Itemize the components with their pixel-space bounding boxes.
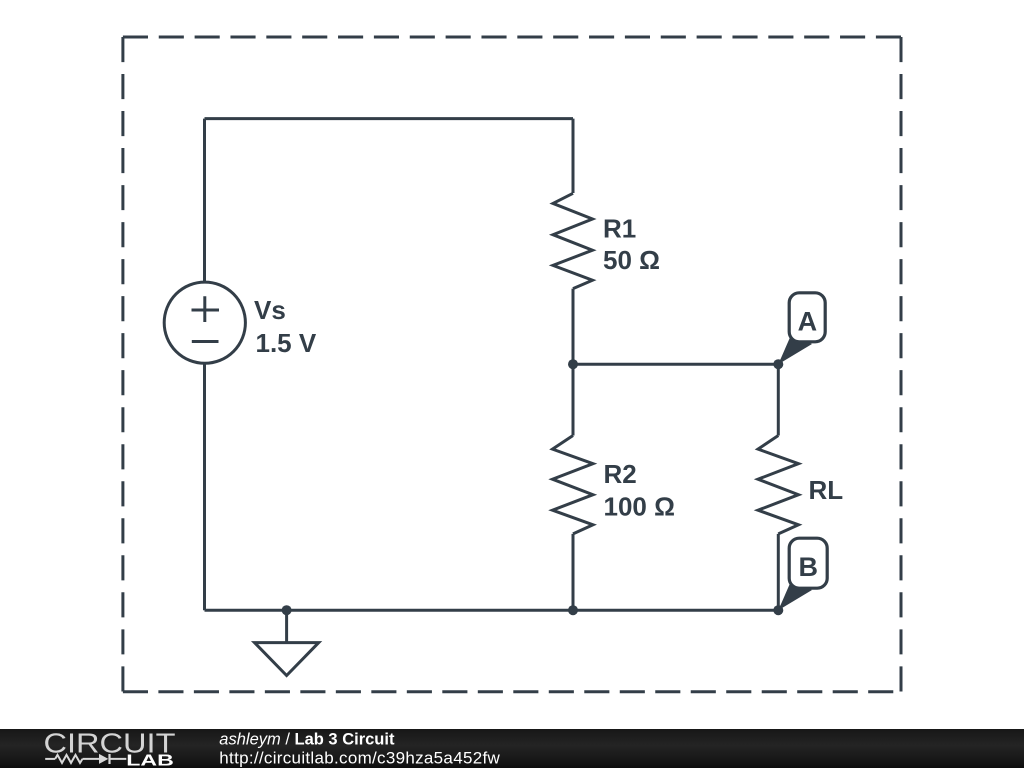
label R1 value	[603, 213, 660, 275]
junction dot at node B	[773, 605, 783, 615]
wire R1 top lead	[572, 119, 575, 193]
ground	[255, 610, 319, 675]
svg-text:100 Ω: 100 Ω	[604, 491, 675, 521]
wire R2 top lead	[572, 364, 575, 436]
voltage source Vs	[164, 282, 245, 363]
svg-text:Vs: Vs	[254, 295, 286, 325]
svg-text:LAB: LAB	[126, 753, 174, 768]
resistor RL	[758, 436, 799, 534]
wire RL bottom lead	[777, 534, 780, 610]
junction dot ground	[282, 605, 292, 615]
wire left upper	[203, 119, 206, 282]
node A flag	[778, 293, 825, 364]
wire middle horizontal	[573, 363, 778, 366]
wire R2 bottom lead	[572, 534, 575, 610]
label Vs value	[254, 295, 317, 358]
wire R1 bottom lead	[572, 289, 575, 364]
wire bottom	[205, 609, 779, 612]
junction dot at R1/R2 node	[568, 359, 578, 369]
svg-text:50 Ω: 50 Ω	[603, 245, 660, 275]
junction dot R2 bottom	[568, 605, 578, 615]
junction dot at node A	[773, 359, 783, 369]
CircuitLab logo doodle	[45, 755, 126, 763]
svg-text:ashleym / Lab 3 Circuit: ashleym / Lab 3 Circuit	[219, 731, 395, 749]
svg-text:R2: R2	[604, 459, 637, 489]
svg-text:http://circuitlab.com/c39hza5a: http://circuitlab.com/c39hza5a452fw	[219, 748, 500, 767]
svg-text:R1: R1	[603, 213, 636, 243]
wire RL top lead	[777, 364, 780, 436]
node B flag	[778, 538, 827, 610]
resistor R2	[553, 436, 594, 534]
svg-text:B: B	[798, 552, 818, 582]
resistor R1	[553, 193, 593, 288]
label R2 value	[604, 459, 675, 521]
wire left lower	[203, 364, 206, 610]
svg-text:1.5 V: 1.5 V	[256, 328, 317, 358]
svg-text:A: A	[798, 307, 818, 337]
svg-text:RL: RL	[809, 475, 844, 505]
wire top	[205, 117, 574, 120]
